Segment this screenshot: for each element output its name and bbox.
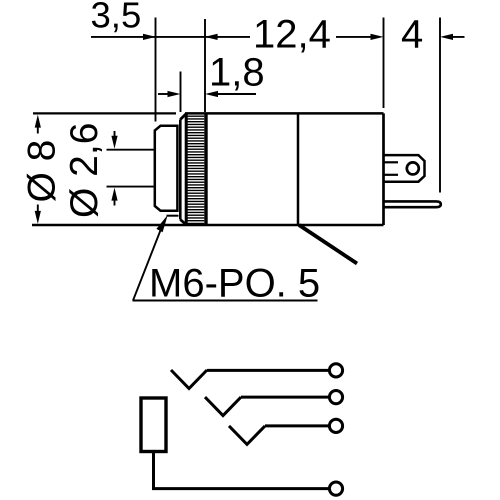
lug terminal <box>384 155 425 182</box>
extension line at bushing face x156 <box>155 18 157 122</box>
terminal circle 4 <box>329 482 342 495</box>
knurl bottom chamfer <box>180 220 186 226</box>
lower tab terminal <box>384 201 441 207</box>
socket body top edge <box>185 112 384 115</box>
label leader line <box>133 229 161 301</box>
dia8 bottom arrow <box>37 205 39 218</box>
knurl top chamfer <box>180 113 186 119</box>
dia8 top arrow <box>35 115 41 128</box>
terminal circle 2 <box>329 391 342 404</box>
knurl left face <box>179 120 182 220</box>
wire to terminal 1 <box>207 369 330 372</box>
knurl hatch <box>187 115 205 225</box>
extension line tab tip x441.5 <box>439 18 441 193</box>
svg-text:Ø 2,6: Ø 2,6 <box>63 123 106 218</box>
body right edge <box>382 113 385 225</box>
threaded bushing M6 <box>155 126 178 211</box>
extension line body left face x205 <box>204 19 206 112</box>
switch S1 blade <box>171 370 207 389</box>
dimension arrow 4 <box>440 34 453 40</box>
wire to terminal 2 <box>241 396 330 399</box>
dimension line 3,5 <box>91 36 250 38</box>
terminal circle 3 <box>329 419 342 432</box>
dimension line 12,4 right arrow <box>336 36 378 38</box>
svg-text:3,5: 3,5 <box>91 0 142 36</box>
wire to terminal 3 <box>265 424 330 427</box>
svg-text:12,4: 12,4 <box>253 13 331 57</box>
dia2,6 top arrow <box>114 131 116 142</box>
dimension 1,8 right arrow <box>205 91 218 97</box>
schematic ground wire <box>154 452 330 489</box>
dimension line 12,4 left arrow <box>205 34 218 40</box>
knurl right border <box>204 113 207 225</box>
body internal line <box>297 113 300 225</box>
socket bottom long line <box>32 224 384 227</box>
dia2,6 bottom arrow <box>114 194 116 206</box>
extension line knurl left face x180.5 <box>180 72 182 113</box>
svg-text:1,8: 1,8 <box>209 50 265 94</box>
switch S3 blade <box>229 426 265 445</box>
lug slot lines <box>384 161 398 163</box>
extension line body right face x383.5 <box>383 18 385 109</box>
terminal circle 1 <box>329 364 342 377</box>
dimension 1,8 left arrow <box>158 93 171 95</box>
switch S2 blade <box>205 397 241 416</box>
lug hole <box>407 162 419 174</box>
dia2,6 lower leader <box>107 186 157 188</box>
dia8 top extension line <box>33 112 176 114</box>
label underline <box>133 300 318 302</box>
svg-text:M6-PO. 5: M6-PO. 5 <box>149 262 320 306</box>
label leader arrowhead <box>156 215 167 232</box>
knurl hatch left border <box>185 113 188 225</box>
dia2,6 upper leader <box>107 149 157 151</box>
svg-text:Ø 8: Ø 8 <box>21 140 64 203</box>
pin diagonal <box>299 225 357 264</box>
schematic sleeve rectangle <box>141 398 166 452</box>
bushing bottom step line <box>167 215 179 217</box>
svg-text:4: 4 <box>401 13 423 57</box>
